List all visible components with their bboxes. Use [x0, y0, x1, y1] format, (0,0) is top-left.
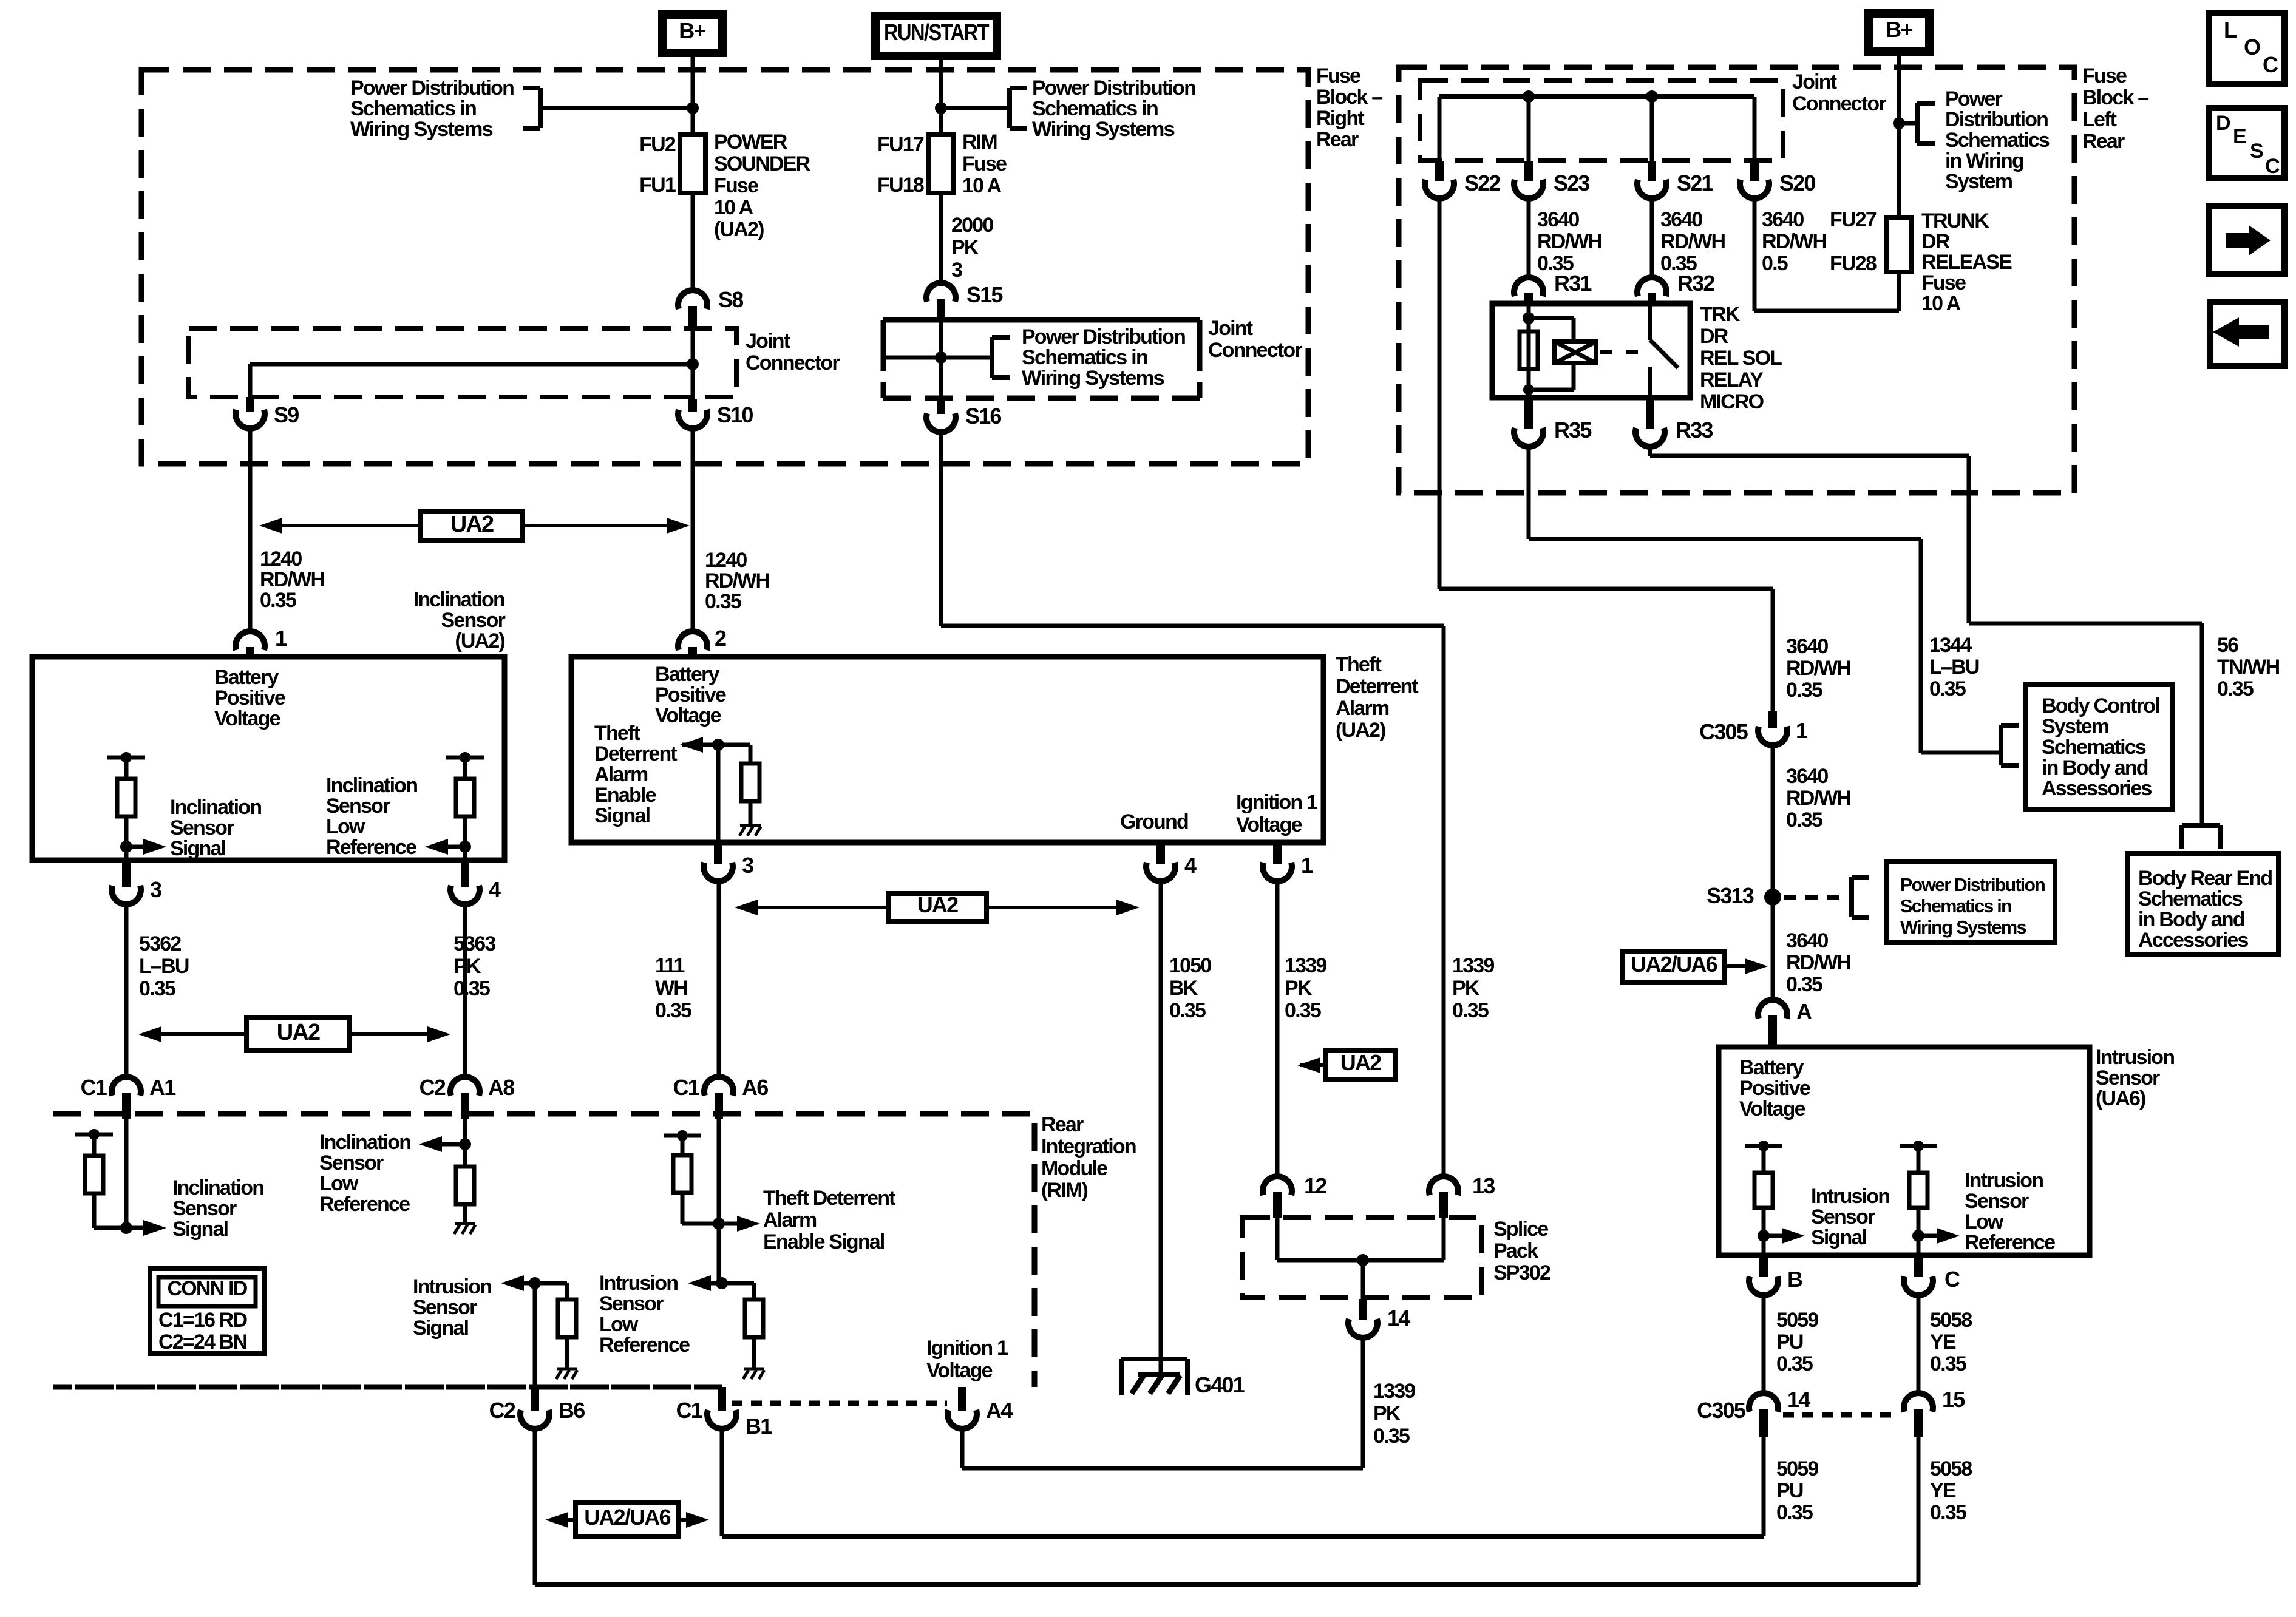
svg-text:Connector: Connector: [1208, 339, 1302, 362]
node junction enable signal: [712, 739, 724, 751]
body rear end schematics box: [2127, 853, 2278, 955]
CONN ID table box: [150, 1269, 264, 1354]
svg-text:5058: 5058: [1930, 1457, 1972, 1480]
resistor intrusion signal: [1754, 1173, 1773, 1208]
svg-text:FU28: FU28: [1830, 252, 1877, 275]
node theft deterrent alarm enable (RIM): [713, 1218, 725, 1230]
svg-text:RD/WH: RD/WH: [1660, 230, 1725, 253]
svg-text:YE: YE: [1930, 1331, 1956, 1354]
bracket body control reference: [1999, 725, 2003, 765]
svg-text:3640: 3640: [1762, 208, 1804, 231]
svg-text:S16: S16: [965, 404, 1001, 429]
connector pin A intrusion: [1758, 1000, 1787, 1019]
svg-text:A1: A1: [149, 1075, 176, 1100]
wire fuse to S8: [691, 193, 695, 291]
relay pin R33: [1646, 398, 1654, 429]
svg-text:0.35: 0.35: [260, 589, 296, 612]
arrow UA2 to ignition wire: [1300, 1063, 1325, 1067]
harness UA2/UA6 reference box (right): [1623, 951, 1725, 982]
arrow intrusion sensor low reference: [1918, 1234, 1937, 1238]
body control system schematics box: [2026, 685, 2172, 809]
wire junction to bracket (S15): [941, 356, 992, 360]
svg-text:Power Distribution: Power Distribution: [1022, 325, 1185, 348]
node intrusion low ref: [1912, 1230, 1924, 1242]
svg-text:Ignition 1: Ignition 1: [926, 1337, 1008, 1360]
svg-text:Assessories: Assessories: [2042, 777, 2152, 800]
svg-text:Wiring Systems: Wiring Systems: [1022, 367, 1164, 390]
svg-text:Sensor: Sensor: [170, 816, 234, 839]
svg-text:C1: C1: [81, 1075, 107, 1100]
svg-text:15: 15: [1942, 1387, 1965, 1412]
node RIM inclination signal: [120, 1222, 132, 1234]
inclination sensor box: [32, 657, 504, 860]
node splice junction: [1357, 1254, 1369, 1266]
svg-text:0.35: 0.35: [1776, 1352, 1813, 1375]
svg-text:Sensor: Sensor: [1811, 1205, 1875, 1229]
svg-text:Intrusion: Intrusion: [599, 1272, 678, 1295]
svg-text:(RIM): (RIM): [1041, 1179, 1087, 1202]
svg-text:RD/WH: RD/WH: [1786, 657, 1850, 680]
wire pin4 down to RIM A8: [463, 904, 467, 1079]
arrow intrusion sensor signal (RIM): [512, 1281, 535, 1286]
svg-text:B6: B6: [559, 1398, 585, 1423]
svg-text:(UA6): (UA6): [2096, 1087, 2145, 1110]
svg-text:0.35: 0.35: [1373, 1425, 1410, 1448]
wire theft pin3 down to RIM A6: [717, 881, 721, 1079]
bus drops to S22 S23 S21 S20: [1438, 97, 1442, 162]
svg-text:TN/WH: TN/WH: [2217, 656, 2280, 679]
svg-text:A6: A6: [742, 1075, 768, 1100]
svg-text:FU1: FU1: [639, 174, 676, 197]
splice pack bus wires: [1275, 1218, 1280, 1260]
node junction on B+ wire: [687, 102, 699, 114]
svg-text:Rear: Rear: [1041, 1113, 1084, 1136]
svg-text:FU18: FU18: [877, 174, 924, 197]
ground (theft internal): [740, 824, 761, 827]
node intrusion signal: [1758, 1230, 1770, 1242]
splice S23: [1524, 161, 1533, 181]
connector C1/A6: [704, 1077, 733, 1096]
svg-text:PK: PK: [1285, 977, 1313, 1000]
svg-text:C305: C305: [1699, 719, 1748, 744]
wire S21 to relay R32: [1650, 198, 1654, 278]
connector C2/A8: [450, 1077, 480, 1096]
wire splice to pin 14: [1361, 1260, 1365, 1299]
svg-text:SP302: SP302: [1493, 1261, 1550, 1284]
svg-text:in Body and: in Body and: [2138, 908, 2244, 931]
svg-text:Schematics in: Schematics in: [1032, 97, 1158, 120]
svg-text:111: 111: [655, 954, 684, 977]
svg-text:C: C: [1944, 1267, 1960, 1292]
svg-text:C1=16 RD: C1=16 RD: [158, 1309, 248, 1332]
svg-text:Joint: Joint: [1208, 317, 1253, 340]
arrow inclination sensor signal: [126, 845, 143, 849]
svg-text:0.35: 0.35: [1786, 679, 1822, 702]
svg-text:R33: R33: [1676, 418, 1713, 442]
svg-text:3640: 3640: [1660, 208, 1702, 231]
power rail B+ (right): [1864, 9, 1934, 56]
svg-text:MICRO: MICRO: [1700, 390, 1764, 413]
svg-text:System: System: [1945, 170, 2012, 193]
svg-text:0.35: 0.35: [1169, 999, 1206, 1022]
harness UA2/UA6 reference box (bottom): [576, 1503, 679, 1537]
supply T-bar left (intrusion): [1745, 1144, 1782, 1148]
arrow UA2/UA6 to B1 wire: [679, 1518, 691, 1522]
svg-text:in Body and: in Body and: [2042, 756, 2148, 779]
svg-text:Sensor: Sensor: [441, 609, 506, 632]
arrow inclination sensor low reference: [448, 845, 465, 849]
bracket power distribution reference (right B+): [1915, 103, 1920, 143]
arrow UA2/UA6 to B6 wire: [563, 1518, 576, 1522]
svg-text:Sensor: Sensor: [2096, 1066, 2160, 1090]
svg-text:C: C: [2263, 52, 2278, 77]
splice S10: [688, 399, 697, 412]
wire S15 through joint connector to S16: [939, 320, 943, 399]
svg-text:Low: Low: [1965, 1210, 2004, 1233]
svg-text:Voltage: Voltage: [1236, 813, 1302, 836]
svg-text:Rear: Rear: [1316, 128, 1359, 151]
svg-text:DR: DR: [1921, 230, 1950, 253]
svg-text:UA2: UA2: [917, 892, 958, 917]
resistor RIM intrusion signal to ground: [535, 1281, 567, 1286]
svg-text:Wiring Systems: Wiring Systems: [350, 118, 493, 141]
svg-text:Block –: Block –: [2082, 86, 2148, 109]
svg-text:Deterrent: Deterrent: [1336, 675, 1418, 698]
svg-text:Body Control: Body Control: [2042, 694, 2159, 717]
svg-text:Schematics: Schematics: [1945, 129, 2050, 152]
svg-text:D: D: [2216, 112, 2230, 135]
wire R35 to body control bracket: [1527, 447, 1531, 539]
svg-text:R31: R31: [1554, 271, 1592, 296]
svg-text:RIM: RIM: [962, 131, 997, 154]
intrusion sensor box: [1719, 1047, 2090, 1255]
dotted connector line B1 to A4: [732, 1401, 947, 1406]
resistor RIM low ref to ground: [463, 1144, 467, 1167]
svg-text:Intrusion: Intrusion: [1965, 1169, 2043, 1192]
connector pin 3 theft: [714, 842, 722, 864]
relay switch contacts: [1648, 303, 1652, 340]
svg-text:BK: BK: [1169, 977, 1198, 1000]
svg-text:FU2: FU2: [639, 133, 676, 156]
power distribution schematics box (S313): [1887, 862, 2055, 943]
svg-text:Joint: Joint: [746, 330, 790, 353]
svg-text:UA2/UA6: UA2/UA6: [1631, 952, 1717, 977]
svg-text:Integration: Integration: [1041, 1135, 1136, 1158]
wire junction to bracket (RUN/START): [941, 106, 1010, 110]
svg-text:L–BU: L–BU: [139, 955, 189, 978]
svg-text:C305: C305: [1697, 1398, 1746, 1423]
svg-text:PK: PK: [1373, 1402, 1401, 1425]
supply T-bar right (inclination): [446, 756, 484, 760]
svg-text:Inclination: Inclination: [326, 774, 417, 797]
splice connector 12: [1263, 1176, 1292, 1195]
svg-text:5059: 5059: [1776, 1457, 1818, 1480]
splice S21: [1648, 161, 1656, 181]
svg-text:4: 4: [1184, 853, 1197, 878]
T-bar supply (RIM enable): [664, 1134, 701, 1138]
svg-text:Enable Signal: Enable Signal: [763, 1230, 885, 1253]
svg-text:Sensor: Sensor: [599, 1292, 664, 1315]
svg-text:Power: Power: [1945, 87, 2003, 110]
svg-text:E: E: [2233, 125, 2246, 148]
connector C1/B1: [718, 1387, 726, 1411]
svg-text:S15: S15: [966, 282, 1003, 307]
svg-text:0.35: 0.35: [1786, 973, 1822, 996]
fuse FU2/FU1 POWER SOUNDER: [680, 134, 705, 193]
arrow theft deterrent alarm enable signal: [682, 743, 718, 747]
svg-text:Enable: Enable: [594, 784, 656, 807]
svg-text:Power Distribution: Power Distribution: [1900, 874, 2045, 895]
arrow UA2 right to pin4 wire: [350, 1032, 432, 1036]
svg-text:S8: S8: [718, 287, 743, 312]
harness UA2 reference box (pins 3-4 row): [246, 1017, 350, 1051]
harness UA2 reference box (ignition wire): [1325, 1050, 1396, 1080]
svg-text:Sensor: Sensor: [319, 1151, 384, 1175]
node junction on RUN/START wire: [935, 102, 947, 114]
wire splice 14 to RIM A4: [1361, 1338, 1365, 1468]
svg-text:FU27: FU27: [1830, 208, 1877, 231]
relay actuator dashed link: [1600, 350, 1646, 354]
wire trunk fuse to S20: [1897, 272, 1901, 311]
svg-text:Distribution: Distribution: [1945, 108, 2048, 131]
svg-text:Pack: Pack: [1493, 1239, 1538, 1263]
svg-text:3640: 3640: [1786, 929, 1828, 952]
svg-text:R32: R32: [1677, 271, 1714, 296]
splice S22: [1435, 161, 1444, 181]
node junction right B+: [1893, 117, 1905, 129]
svg-text:0.35: 0.35: [2217, 677, 2254, 700]
T-bar supply (RIM signal): [75, 1133, 113, 1137]
svg-text:Positive: Positive: [1739, 1077, 1810, 1100]
connector pin B intrusion: [1759, 1255, 1768, 1277]
node RIM inclination low ref: [459, 1138, 471, 1150]
svg-text:14: 14: [1787, 1387, 1810, 1412]
svg-text:S23: S23: [1554, 171, 1589, 195]
connector C305 pin 15: [1904, 1393, 1933, 1412]
svg-text:Battery: Battery: [1739, 1056, 1804, 1079]
svg-text:5362: 5362: [139, 932, 181, 955]
wire A1 to signal node (RIM): [124, 1114, 129, 1228]
trunk release fuse FU27/FU28: [1886, 217, 1912, 272]
svg-text:10 A: 10 A: [714, 196, 753, 219]
svg-text:Alarm: Alarm: [594, 763, 648, 786]
node junction S15-S16: [935, 351, 947, 364]
splice pack SP302 dashed box: [1242, 1218, 1482, 1298]
svg-text:Power Distribution: Power Distribution: [350, 76, 514, 100]
joint connector dashed box (right): [1420, 81, 1783, 161]
svg-text:0.35: 0.35: [1930, 1352, 1966, 1375]
fuse FU17/FU18 RIM: [928, 134, 954, 193]
relay coil branch wires: [1527, 303, 1531, 390]
wire S16 down then right to splice 13 drop: [939, 432, 943, 626]
connector A4 RIM ignition: [958, 1387, 966, 1411]
wire junction to bracket: [540, 106, 693, 110]
svg-text:A: A: [1796, 999, 1812, 1024]
fuse block left rear dashed box: [1399, 67, 2074, 493]
wire fuse to S15: [939, 193, 943, 286]
svg-text:0.5: 0.5: [1762, 252, 1788, 275]
svg-text:Intrusion: Intrusion: [2096, 1046, 2174, 1069]
connector pin 14 splice pack: [1359, 1299, 1367, 1320]
svg-text:10 A: 10 A: [1921, 292, 1961, 315]
svg-text:UA2: UA2: [1340, 1050, 1381, 1075]
svg-text:Signal: Signal: [170, 837, 226, 860]
wire pin3 down to RIM A1: [124, 904, 129, 1079]
svg-text:(UA2): (UA2): [1336, 719, 1385, 742]
LOC navigation box: [2209, 13, 2284, 84]
connector pin C intrusion: [1914, 1255, 1923, 1277]
svg-text:Joint: Joint: [1792, 70, 1837, 93]
splice S8: [678, 290, 707, 309]
svg-text:Voltage: Voltage: [214, 707, 280, 730]
navigation arrow right box: [2209, 206, 2284, 274]
wire S10 down to theft deterrent pin 2: [691, 428, 695, 632]
splice S15: [926, 283, 956, 302]
svg-text:Wiring Systems: Wiring Systems: [1032, 118, 1175, 141]
svg-text:Reference: Reference: [319, 1193, 410, 1216]
svg-text:0.35: 0.35: [1776, 1501, 1813, 1524]
svg-text:Body Rear End: Body Rear End: [2138, 867, 2272, 890]
svg-text:B+: B+: [1886, 17, 1912, 42]
arrow intrusion sensor low reference (RIM): [699, 1281, 722, 1286]
svg-text:RELAY: RELAY: [1700, 368, 1764, 392]
svg-text:C1: C1: [673, 1075, 700, 1100]
svg-text:0.35: 0.35: [705, 590, 741, 613]
svg-text:Low: Low: [599, 1313, 639, 1336]
svg-text:Battery: Battery: [655, 663, 719, 686]
resistor intrusion low ref: [1909, 1173, 1927, 1208]
arrow UA2 left to pin3 wire: [157, 1032, 246, 1036]
svg-text:Battery: Battery: [214, 666, 279, 689]
svg-text:0.35: 0.35: [139, 977, 175, 1000]
svg-text:Left: Left: [2082, 108, 2117, 131]
svg-text:S313: S313: [1707, 883, 1754, 908]
svg-text:0.35: 0.35: [1929, 677, 1966, 700]
svg-text:Intrusion: Intrusion: [1811, 1185, 1889, 1208]
joint connector box (middle): [883, 317, 1200, 323]
svg-text:Voltage: Voltage: [926, 1359, 993, 1382]
resistor RIM intrusion low ref to ground: [722, 1281, 754, 1286]
svg-text:Reference: Reference: [1965, 1231, 2055, 1254]
svg-text:Fuse: Fuse: [962, 152, 1007, 175]
svg-text:S22: S22: [1464, 171, 1500, 195]
wire theft pin 3: [716, 745, 721, 842]
svg-text:Sensor: Sensor: [326, 795, 390, 818]
svg-text:Fuse: Fuse: [1316, 64, 1360, 87]
resistor RIM enable: [673, 1155, 691, 1193]
fuse block right rear dashed box: [141, 70, 1308, 464]
svg-text:Schematics in: Schematics in: [350, 97, 476, 120]
svg-text:Ignition 1: Ignition 1: [1236, 791, 1317, 814]
svg-text:RD/WH: RD/WH: [1762, 230, 1826, 253]
ground (RIM low ref): [455, 1222, 475, 1225]
wire B+ down to fuse FU2: [691, 57, 695, 137]
svg-text:Signal: Signal: [413, 1317, 469, 1340]
svg-text:Accessories: Accessories: [2138, 929, 2248, 952]
svg-text:1339: 1339: [1373, 1380, 1415, 1403]
svg-text:Reference: Reference: [326, 836, 416, 859]
svg-text:PK: PK: [1452, 977, 1480, 1000]
resistor pull (theft enable): [718, 743, 750, 747]
svg-text:FU17: FU17: [877, 133, 924, 156]
svg-text:YE: YE: [1930, 1479, 1956, 1502]
connector C305 pin 14: [1749, 1393, 1778, 1412]
resistor RIM inclination signal: [85, 1156, 103, 1193]
wire B6 node down: [533, 1283, 537, 1387]
svg-text:RD/WH: RD/WH: [1537, 230, 1601, 253]
wire A8 to low ref node (RIM): [463, 1114, 467, 1144]
wire S23 to relay R31: [1527, 198, 1531, 278]
svg-text:1240: 1240: [705, 549, 747, 572]
svg-text:L: L: [2224, 18, 2237, 42]
dashed connector line C305 14-15: [1783, 1412, 1900, 1418]
svg-text:5363: 5363: [453, 932, 495, 955]
svg-text:1344: 1344: [1929, 634, 1972, 657]
svg-text:3640: 3640: [1786, 635, 1828, 658]
splice S9: [246, 397, 254, 412]
svg-text:CONN ID: CONN ID: [168, 1277, 248, 1300]
svg-text:PK: PK: [951, 236, 979, 259]
connector pin 1 theft ignition: [1273, 842, 1282, 864]
wire node to pin C: [1917, 1236, 1921, 1255]
svg-text:REL SOL: REL SOL: [1700, 347, 1782, 370]
relay pin R35: [1524, 398, 1533, 429]
arrow intrusion sensor signal: [1764, 1234, 1782, 1238]
svg-text:0.35: 0.35: [655, 999, 691, 1022]
svg-text:B1: B1: [746, 1414, 772, 1439]
svg-text:RD/WH: RD/WH: [260, 568, 324, 591]
node RIM intrusion signal: [529, 1277, 541, 1289]
svg-text:3640: 3640: [1786, 765, 1828, 788]
arrow UA2 to S10 wire: [523, 524, 671, 527]
wire theft pin4 down to G401: [1159, 881, 1163, 1374]
svg-text:C1: C1: [676, 1398, 703, 1423]
svg-text:DR: DR: [1700, 325, 1728, 348]
relay TRK DR REL SOL box: [1492, 303, 1690, 398]
svg-text:Inclination: Inclination: [413, 588, 504, 611]
connector C2/B6: [531, 1387, 539, 1411]
svg-text:Inclination: Inclination: [172, 1176, 263, 1199]
svg-text:S21: S21: [1677, 171, 1713, 195]
wire pin C to C305-15: [1917, 1295, 1921, 1396]
svg-text:Voltage: Voltage: [1739, 1097, 1805, 1120]
arrow theft deterrent alarm enable signal (RIM): [719, 1222, 737, 1226]
svg-text:3: 3: [951, 259, 962, 282]
svg-text:(UA2): (UA2): [455, 629, 504, 653]
wire theft pin1 down to splice 12: [1275, 881, 1280, 1178]
svg-text:13: 13: [1472, 1173, 1495, 1198]
dashed link S313 to bracket: [1784, 895, 1850, 900]
wire B+ right down to trunk fuse: [1897, 56, 1901, 217]
wire junction to bracket (right B+): [1899, 121, 1917, 126]
svg-text:TRK: TRK: [1700, 303, 1741, 326]
svg-text:B: B: [1787, 1267, 1802, 1292]
wire node to pin B: [1762, 1236, 1766, 1255]
svg-text:1339: 1339: [1285, 954, 1326, 977]
wire pin B to C305-14: [1762, 1295, 1766, 1396]
svg-text:C2: C2: [419, 1075, 446, 1100]
svg-text:RD/WH: RD/WH: [1786, 951, 1850, 974]
wire S22 down to C305 pin 1: [1438, 198, 1442, 589]
svg-text:Schematics: Schematics: [2138, 887, 2243, 910]
svg-text:System: System: [2042, 715, 2109, 738]
svg-text:Ground: Ground: [1120, 810, 1188, 833]
svg-text:Sensor: Sensor: [1965, 1190, 2029, 1213]
arrow UA2/UA6 to intrusion feed wire: [1725, 964, 1745, 968]
svg-text:C: C: [2265, 155, 2280, 178]
svg-text:POWER: POWER: [714, 131, 787, 154]
svg-text:Schematics in: Schematics in: [1900, 895, 2012, 917]
